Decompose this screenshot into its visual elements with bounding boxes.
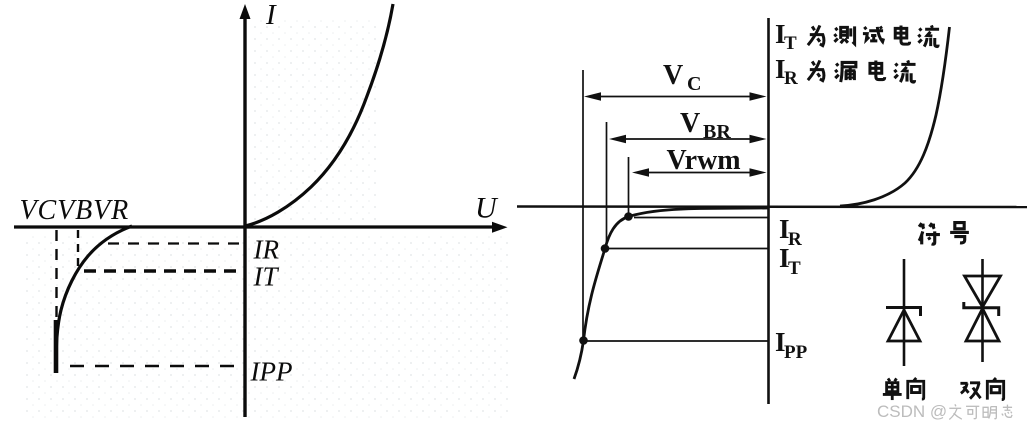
- svg-text:CSDN @: CSDN @: [877, 402, 947, 421]
- forward I-V curve: [245, 4, 393, 226]
- diode D1 unidirectional TVS symbol: [886, 259, 921, 366]
- right x-axis: [517, 205, 1027, 208]
- dashed level line IR: [108, 242, 242, 244]
- text: danxiang (unidirectional): [883, 378, 924, 400]
- node dot at VC/IPP: [579, 336, 588, 345]
- svg-text:C: C: [687, 73, 701, 95]
- right reverse curve: [574, 208, 768, 379]
- diode D2 bidirectional TVS symbol: [964, 259, 1001, 362]
- legend text: wei loudianliu (is leakage current): [808, 60, 916, 82]
- dashed vertical at VB: [77, 230, 79, 271]
- VC dimension arrow: [584, 92, 767, 101]
- left x-axis (U axis): [14, 222, 508, 233]
- svg-text:Vrwm: Vrwm: [667, 145, 741, 176]
- svg-text:PP: PP: [784, 342, 808, 363]
- svg-text:T: T: [784, 33, 797, 54]
- svg-text:U: U: [475, 192, 499, 225]
- svg-text:R: R: [784, 68, 798, 89]
- level line IR right: [634, 217, 768, 219]
- svg-text:IR: IR: [253, 235, 280, 265]
- dashed level line IPP: [70, 365, 240, 367]
- level line IPP right: [585, 340, 768, 342]
- svg-text:VCVBVR: VCVBVR: [20, 195, 130, 226]
- text: shuangxiang (bidirectional): [960, 378, 1003, 400]
- faint scan noise texture: [25, 232, 510, 422]
- svg-text:V: V: [680, 108, 700, 139]
- thin vertical at VC bound: [582, 70, 584, 341]
- svg-text:IPP: IPP: [250, 357, 293, 387]
- right forward curve: [840, 27, 950, 206]
- node dot at VBR/IT: [601, 244, 610, 253]
- VBR dimension arrow: [609, 135, 767, 144]
- level line IT right: [607, 248, 768, 250]
- legend text: wei ceshi dianliu (is test current): [808, 25, 939, 46]
- Vrwm dimension arrow: [632, 168, 767, 177]
- left y-axis (I axis): [240, 4, 251, 417]
- reverse curve thick vertical part: [54, 320, 59, 373]
- svg-text:IT: IT: [253, 262, 280, 292]
- dashed vertical at VC: [55, 230, 57, 366]
- thin vertical at Vrwm bound: [628, 157, 630, 216]
- svg-text:V: V: [663, 60, 683, 91]
- thin vertical at VBR bound: [606, 122, 608, 248]
- dashed level line IT (bold): [84, 269, 244, 272]
- svg-text:T: T: [788, 258, 801, 279]
- svg-text:R: R: [788, 229, 802, 250]
- right y-axis vertical line: [767, 18, 770, 404]
- text: fuhao (symbol): [919, 223, 969, 245]
- svg-text:BR: BR: [703, 121, 731, 143]
- node dot at Vrwm/IR: [624, 212, 633, 221]
- reverse breakdown curve: [56, 226, 132, 373]
- svg-text:I: I: [265, 0, 277, 31]
